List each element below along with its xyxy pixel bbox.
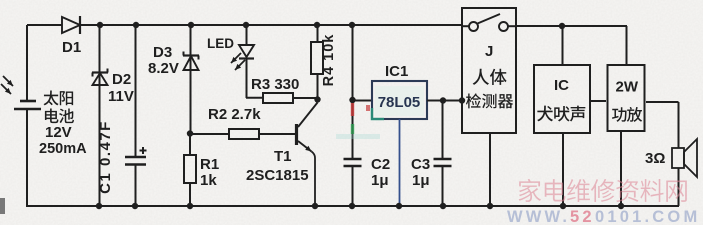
wire top rail to IC1 input: [352, 25, 354, 100]
LED diode: [239, 45, 254, 59]
wire top rail right of J box: [516, 25, 627, 27]
label 250mA: [39, 141, 87, 157]
svg-text:D1: D1: [62, 39, 81, 56]
wire switch contacts: [462, 25, 516, 27]
node top rail / D2: [97, 22, 103, 28]
wire IC box to 2W box: [590, 100, 606, 102]
svg-text:2SC1815: 2SC1815: [246, 167, 309, 184]
capacitor C3: [434, 159, 452, 166]
resistor R2: [229, 129, 259, 139]
watermark colored dashes on C2 wire: [336, 103, 380, 139]
wire speaker to bottom rail: [678, 168, 680, 206]
label 3Ω: [645, 150, 665, 167]
label C1 0.47F (vertical): [97, 120, 114, 194]
svg-text:1μ: 1μ: [371, 172, 389, 189]
svg-text:8.2V: 8.2V: [148, 60, 179, 77]
switch J contact right: [499, 22, 508, 31]
transistor T1 base bar: [295, 124, 298, 145]
svg-text:3Ω: 3Ω: [645, 150, 665, 167]
node bottom rail / IC box: [560, 203, 566, 209]
svg-text:WWW.: WWW.: [507, 208, 570, 225]
speaker BL horn: [684, 139, 697, 177]
svg-text:D2: D2: [112, 71, 131, 88]
zener diode D2: [92, 69, 108, 86]
label R1: [200, 156, 219, 173]
wire top rail to R4: [317, 25, 319, 42]
speaker BL body: [672, 148, 684, 168]
wire top rail left of D1: [27, 24, 62, 26]
node bottom rail / D2: [96, 203, 102, 209]
svg-text:R1: R1: [200, 156, 219, 173]
node top rail / LED: [243, 22, 249, 28]
svg-text:11V: 11V: [108, 88, 134, 105]
wire left rail from solar cell to bottom rail: [26, 109, 28, 206]
wire R1 to bottom rail: [189, 183, 191, 206]
svg-text:250mA: 250mA: [39, 141, 87, 157]
detector module J box: [462, 8, 516, 133]
node bottom rail / J box: [487, 203, 493, 209]
wire IC1 input node to IC1: [352, 100, 372, 102]
node top rail / R4: [314, 22, 320, 28]
wire LED to R3: [246, 59, 263, 99]
svg-text:R2 2.7k: R2 2.7k: [208, 106, 261, 123]
label 检测器: [466, 93, 513, 108]
wire left rail from top rail to solar cell: [26, 25, 28, 101]
label D2: [112, 71, 131, 88]
node bottom rail / IC1 ground: [396, 203, 402, 209]
label 12V: [45, 124, 72, 141]
label T1: [274, 148, 292, 165]
IC U1 78L05 box: [372, 81, 427, 119]
svg-text:C1 0.47F: C1 0.47F: [97, 120, 114, 194]
resistor R4: [311, 42, 323, 74]
wire IC box to bottom rail: [562, 133, 564, 206]
transistor T1 emitter: [298, 141, 312, 152]
wire bottom rail: [26, 205, 679, 207]
node collector R3/R4/T1: [314, 96, 320, 102]
label 2SC1815: [246, 167, 309, 184]
label 78L05: [378, 94, 421, 111]
LED light arrow 2: [235, 60, 245, 70]
IC dog-bark sound box: [534, 65, 590, 133]
label IC1: [385, 63, 408, 80]
label 电池: [45, 109, 74, 124]
node bottom rail / C1: [132, 203, 138, 209]
label C3 1μ: [412, 172, 430, 189]
wire C2 branch lower: [352, 166, 354, 206]
svg-text:IC1: IC1: [385, 63, 408, 80]
label C2: [371, 156, 390, 173]
diode D1: [62, 16, 80, 34]
wire C3 branch lower: [442, 166, 444, 206]
wire 2W box to bottom rail: [620, 131, 622, 206]
switch J blade: [478, 14, 501, 24]
wire C1 branch lower: [135, 165, 137, 207]
label R3 330: [251, 76, 299, 93]
svg-text:R4 10k: R4 10k: [321, 34, 337, 87]
node top rail / C1: [133, 22, 139, 28]
svg-text:12V: 12V: [45, 124, 72, 141]
label IC: [554, 77, 569, 94]
node bottom rail / C3: [440, 203, 446, 209]
watermark green tint IC1 box corner: [372, 108, 384, 119]
label LED: [207, 36, 234, 51]
resistor R1: [184, 133, 196, 183]
label 8.2V: [148, 60, 179, 77]
label C3: [411, 156, 430, 173]
wire IC1 output: [427, 100, 462, 102]
watermark WWW.52: [507, 208, 595, 226]
zener diode D3: [183, 52, 199, 71]
svg-text:C2: C2: [371, 156, 390, 173]
2W amplifier box: [608, 65, 645, 131]
svg-text:0101.COM: 0101.COM: [595, 208, 700, 225]
node IC1 output / C3: [440, 97, 446, 103]
svg-text:D3: D3: [153, 44, 172, 61]
svg-text:1k: 1k: [200, 172, 217, 189]
watermark 家电维修资料网: [519, 179, 687, 202]
node IC1 input / C2: [349, 97, 355, 103]
svg-text:C3: C3: [411, 156, 430, 173]
label 人体: [473, 69, 507, 85]
capacitor C1: [125, 147, 147, 165]
wire C1 branch upper: [135, 25, 137, 157]
label R2 2.7k: [208, 106, 261, 123]
wire top rail D1 to J box: [81, 24, 462, 26]
svg-text:J: J: [485, 43, 493, 60]
label 2W: [616, 79, 639, 96]
wire C3 branch upper: [442, 101, 444, 160]
label J: [485, 43, 493, 60]
resistor R3: [263, 93, 293, 103]
label D1: [62, 39, 81, 56]
label 11V: [108, 88, 134, 105]
light arrow 2 into solar cell: [1, 84, 11, 94]
node top rail / IC1 input: [349, 22, 355, 28]
svg-text:R3 330: R3 330: [251, 76, 299, 93]
label 太阳: [44, 90, 74, 105]
node D3 / R1 / R2: [187, 130, 193, 136]
capacitor C2: [344, 159, 362, 166]
svg-text:52: 52: [570, 208, 595, 225]
solar cell battery B (short plate): [20, 100, 36, 103]
svg-text:LED: LED: [207, 36, 234, 51]
node bottom rail / C2: [349, 203, 355, 209]
light arrow 1 into solar cell: [3, 76, 13, 86]
node bottom rail / R1: [187, 203, 193, 209]
node J box input: [459, 97, 465, 103]
wire node to R2: [190, 133, 229, 135]
LED light arrow 1: [231, 53, 241, 63]
label 1k: [200, 172, 217, 189]
watermark 0101.COM: [595, 208, 700, 226]
wire IC1 ground: [399, 119, 401, 206]
wire R2 to T1 base: [259, 133, 296, 135]
wire D2 branch: [99, 25, 101, 206]
wire J box to bottom rail: [489, 133, 491, 206]
node bottom rail / 2W box: [618, 203, 624, 209]
label C2 1μ: [371, 172, 389, 189]
wire LED branch: [246, 25, 248, 45]
svg-text:2W: 2W: [616, 79, 639, 96]
svg-text:78L05: 78L05: [378, 94, 421, 111]
wire IC box supply: [562, 26, 564, 65]
label D3: [153, 44, 172, 61]
transistor T1 collector: [298, 103, 318, 128]
scan edge blob: [0, 198, 5, 214]
wire R3 to collector node: [293, 97, 317, 99]
node top rail / IC box: [559, 23, 565, 29]
svg-text:IC: IC: [554, 77, 569, 94]
wire 2W box to speaker: [646, 102, 679, 148]
wire R4 to collector node: [317, 74, 319, 99]
label 犬吠声: [537, 106, 585, 122]
wire emitter to bottom rail: [312, 152, 316, 207]
wire D3 branch: [190, 25, 192, 133]
wire C2 branch upper: [352, 100, 354, 159]
label R4 10k (vertical): [321, 34, 337, 87]
node top rail / D3: [188, 22, 194, 28]
wire top rail down to 2W box: [626, 26, 628, 65]
solar cell battery B (long plate): [14, 108, 41, 111]
svg-text:T1: T1: [274, 148, 292, 165]
label 功放: [612, 107, 642, 122]
svg-text:1μ: 1μ: [412, 172, 430, 189]
node bottom rail / emitter: [312, 203, 318, 209]
switch J contact left: [469, 22, 478, 31]
